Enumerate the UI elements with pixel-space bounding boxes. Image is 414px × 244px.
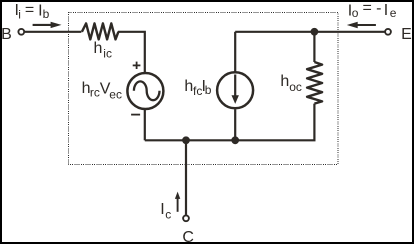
svg-text:=: = <box>25 2 34 19</box>
svg-text:I: I <box>384 2 388 19</box>
svg-text:C: C <box>182 229 194 244</box>
svg-text:rc: rc <box>90 86 100 100</box>
svg-text:ic: ic <box>103 47 112 61</box>
svg-text:b: b <box>43 7 50 21</box>
svg-text:E: E <box>401 26 412 43</box>
svg-text:c: c <box>165 208 171 222</box>
svg-text:I: I <box>160 201 164 218</box>
svg-text:b: b <box>205 83 212 97</box>
svg-text:ec: ec <box>109 87 122 101</box>
svg-text:h: h <box>280 73 289 90</box>
svg-text:e: e <box>390 6 397 20</box>
svg-text:=: = <box>363 0 372 17</box>
svg-text:h: h <box>94 40 103 57</box>
svg-text:B: B <box>1 26 12 43</box>
svg-text:i: i <box>18 7 21 21</box>
svg-text:-: - <box>376 0 381 17</box>
svg-text:h: h <box>184 78 193 95</box>
svg-text:o: o <box>352 6 359 20</box>
svg-text:oc: oc <box>289 80 302 94</box>
